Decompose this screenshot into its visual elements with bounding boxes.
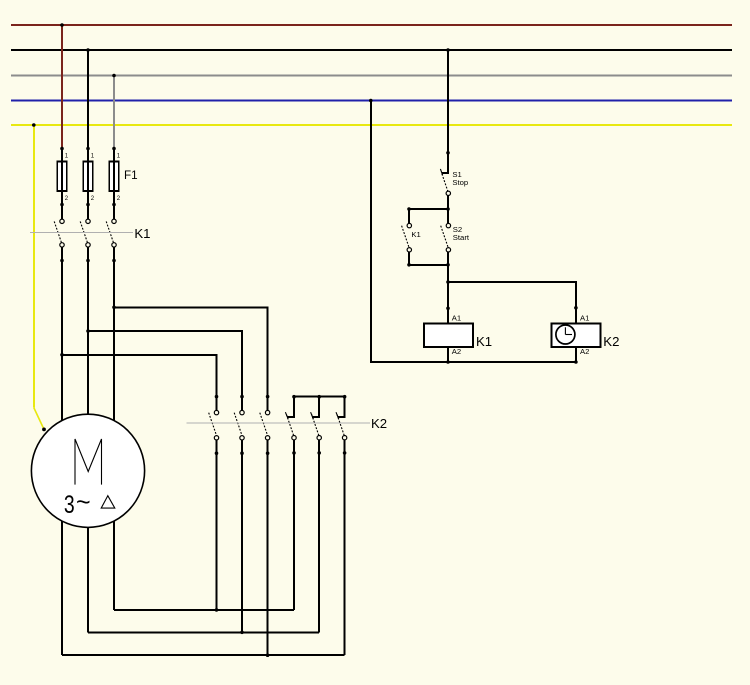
node branch U [60,353,64,357]
rail L3 [11,75,732,77]
svg-text:K1: K1 [134,226,150,241]
node row1 [215,608,219,612]
K2 linkage line [186,422,370,424]
svg-text:A1: A1 [452,313,461,322]
node N tap [369,99,373,103]
K1 linkage line [30,232,133,234]
wire K1 coil A2 [447,347,449,362]
wire delta row2 [88,631,319,633]
svg-text:Start: Start [453,233,470,242]
wire K2 coil A2 [575,347,577,362]
node K1 pole3 out [112,259,116,263]
fuse F1 pole3 [109,154,121,202]
contactor K2 pole2 [234,395,244,632]
wire delta row3 [62,654,345,656]
node latch bottom L [407,263,411,267]
svg-text:K1: K1 [411,230,420,239]
svg-text:F1: F1 [124,169,138,182]
node fuse1 pin2 [60,203,64,207]
node L3 tap [112,74,116,78]
contactor K2 pole4 [285,397,296,610]
fuse F1 pole2 [83,154,95,202]
rail L1 [11,24,732,26]
wire delta row1 [114,609,294,611]
node L2 tap [86,48,90,52]
node K1 pole2 out [86,259,90,263]
node K2 A2 [574,360,578,364]
rail N [11,100,732,102]
node row3 [266,653,270,657]
contactor K1 pole3 [106,219,116,247]
svg-text:A2: A2 [580,347,589,356]
wire phase2 lower [87,247,89,632]
node bridge 1 [292,395,296,399]
svg-text:K2: K2 [603,334,619,349]
node bridge 2 [317,395,321,399]
contact K1 aux [402,209,412,265]
node K1 A2 [446,360,450,364]
wire latch top [409,208,448,210]
node fuse3 pin1 [112,147,116,151]
wire phase2 upper [87,149,89,220]
wire latch bottom [409,264,448,266]
motor M letter [75,439,102,485]
node row2 [240,631,244,635]
svg-text:3: 3 [64,491,75,519]
node latch top R [446,207,450,211]
node PE motor [42,428,46,432]
rail PE [11,124,732,126]
contactor K2 pole6 [336,397,347,656]
node K1 pole1 out [60,259,64,263]
wire branch V to K2 [88,331,242,397]
wire branch W to K2 [114,307,268,396]
motor M1 body [31,414,144,527]
node L1 tap [60,23,64,27]
wire tap L3 [113,76,115,149]
wire phase3 upper [113,149,115,220]
svg-text:A2: A2 [452,347,461,356]
button S1 [440,151,450,209]
wire tap N [371,101,576,363]
svg-text:A1: A1 [580,313,589,322]
coil K2 timer [552,324,601,348]
node fuse2 pin1 [86,147,90,151]
wire phase1 upper [61,149,63,220]
node latch bottom R [446,263,450,267]
node branch W [112,306,116,310]
contactor K1 pole1 [54,219,64,247]
wire phase3 lower [113,247,115,610]
coil K1 [424,324,473,348]
wire K2 bridge bar [294,396,345,398]
node latch top L [407,207,411,211]
contactor K2 pole1 [209,395,219,610]
contactor K2 pole5 [311,397,322,633]
wire phase1 lower [61,247,63,655]
contactor K2 pole3 [260,395,270,655]
node branch K2 coil [446,280,450,284]
node K1 coil A1 [446,307,450,311]
motor delta symbol [101,496,115,508]
contactor K1 pole2 [80,219,90,247]
svg-text:K1: K1 [476,334,492,349]
rail L2 [11,49,732,51]
node fuse2 pin2 [86,203,90,207]
fuse F1 pole1 [57,154,69,202]
wire tap L2 [87,50,89,149]
wire branch U to K2 [62,355,217,397]
svg-text:K2: K2 [371,416,387,431]
wire tap PE yellow [33,125,35,408]
wire branch to K2 coil [448,282,576,324]
svg-text:~: ~ [76,489,91,517]
wire tap control [447,50,449,173]
wire to K1 coil [447,265,449,324]
node fuse3 pin2 [112,203,116,207]
wire tap L1 [61,25,63,149]
node bridge 3 [343,395,347,399]
node PE tap [32,123,36,127]
svg-text:Stop: Stop [452,178,468,187]
node control tap [446,48,450,52]
node K2 coil A1 [574,306,578,310]
node branch V [86,329,90,333]
button S2 [441,209,451,265]
node fuse1 pin1 [60,147,64,151]
